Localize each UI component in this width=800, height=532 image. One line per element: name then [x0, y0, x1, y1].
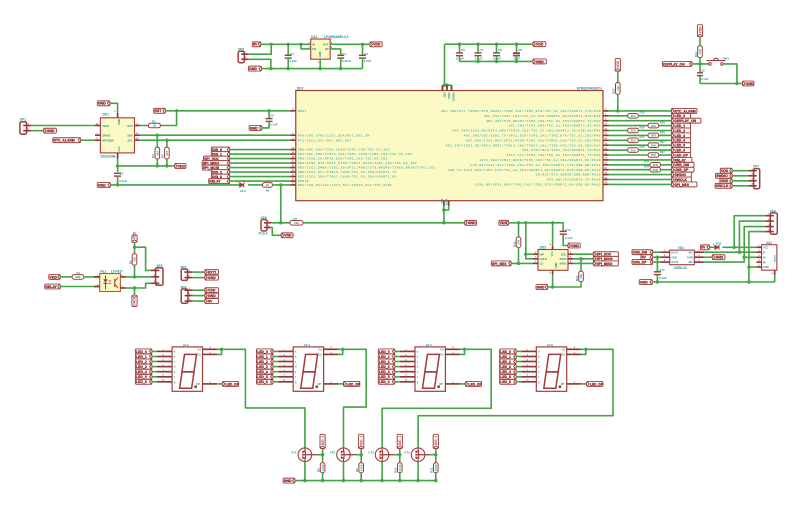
svg-text:GND: GND: [640, 280, 648, 284]
node: [287, 43, 290, 46]
svg-text:GND: GND: [763, 265, 769, 269]
svg-text:PB6/I2C1_SCL/TIM16_CH1N/TSC_G5: PB6/I2C1_SCL/TIM16_CH1N/TSC_G5_IO3/USART…: [298, 170, 397, 174]
svg-text:LED_0: LED_0: [379, 350, 390, 354]
svg-text:DIG_2: DIG_2: [398, 435, 402, 445]
wire 5V rail: [261, 43, 311, 45]
svg-text:VCC: VCC: [117, 146, 121, 152]
svg-text:GND: GND: [537, 285, 545, 289]
node: [361, 43, 364, 46]
wire: [249, 44, 271, 54]
svg-text:SWCLK: SWCLK: [716, 184, 729, 188]
svg-text:R9: R9: [355, 468, 359, 472]
resistor R1: [72, 271, 84, 279]
wire: [723, 64, 737, 84]
wire collector: [126, 276, 151, 278]
resistor R19: [648, 121, 665, 128]
svg-text:D-: D-: [763, 250, 766, 254]
svg-text:LED_6: LED_6: [675, 148, 686, 152]
svg-text:VT1: VT1: [291, 451, 297, 455]
wire ca1: [222, 349, 305, 447]
svg-text:0.1uF: 0.1uF: [565, 236, 573, 240]
resistor R13: [548, 259, 584, 287]
wire vdd rail: [445, 43, 533, 45]
wire xp8-3: [744, 227, 765, 258]
pin INT/SQW: [95, 138, 100, 140]
label flag LED_5: [671, 143, 690, 148]
node: [133, 275, 136, 278]
svg-text:PB1/ADC_IN9/TIM14_CH1/TIM1_CH3: PB1/ADC_IN9/TIM14_CH1/TIM1_CH3N/TIM3_CH4…: [298, 152, 413, 156]
wire: [609, 115, 628, 117]
label flag LED_3: [671, 133, 690, 138]
wire: [60, 286, 99, 288]
pin VBAT: [95, 122, 100, 125]
node: [279, 221, 446, 224]
svg-text:LED_5: LED_5: [379, 375, 390, 379]
svg-text:VCC: VCC: [763, 245, 769, 249]
wire: [516, 356, 521, 358]
node: [133, 246, 136, 249]
svg-text:C2: C2: [270, 114, 274, 118]
svg-text:LED_5: LED_5: [675, 144, 686, 148]
svg-text:LED_DP: LED_DP: [468, 382, 482, 386]
label flag LED_DP: [222, 381, 239, 386]
svg-text:HL4: HL4: [304, 343, 310, 347]
svg-text:HL5: HL5: [426, 343, 432, 347]
wire: [653, 256, 661, 258]
svg-text:RST: RST: [154, 109, 162, 113]
resistor R25: [612, 83, 620, 95]
svg-text:ADC_IN5/CEC/I2S1_CK/SPI1_SCK/T: ADC_IN5/CEC/I2S1_CK/SPI1_SCK/TIM2_CH1/TI…: [464, 134, 601, 138]
ground flag GND: [283, 478, 295, 483]
wire: [732, 180, 749, 182]
svg-text:GND: GND: [284, 479, 292, 483]
svg-text:CA: CA: [561, 353, 565, 357]
svg-text:VDD: VDD: [698, 26, 702, 34]
svg-text:I2C1_SDA/TIM17_BKIN/TIM1_CH3/T: I2C1_SDA/TIM17_BKIN/TIM1_CH3/TSC_G4_IO2/…: [479, 158, 601, 162]
label flag LED_4: [378, 369, 395, 374]
label flag DIG_3: [211, 174, 229, 179]
svg-text:VDD: VDD: [500, 221, 508, 225]
label flag LED_2: [500, 359, 516, 364]
wire: [659, 134, 672, 136]
ground flag GND: [44, 128, 57, 133]
wire: [134, 242, 136, 247]
resistor R4: [151, 135, 160, 166]
wire wp/hold: [526, 223, 533, 259]
wire gnd rail: [261, 68, 362, 70]
svg-text:32KHZ: 32KHZ: [102, 133, 111, 137]
svg-text:f: f: [295, 375, 296, 379]
wire: [152, 350, 157, 352]
connector XP7: [749, 165, 760, 189]
label flag DIG_3 vertical: [433, 434, 438, 448]
resistor R15: [628, 111, 645, 118]
wire dplus: [744, 256, 756, 258]
svg-text:DISPLAY_ON: DISPLAY_ON: [675, 119, 697, 123]
label flag EXT: [205, 270, 219, 275]
svg-text:VDDIO2: VDDIO2: [452, 92, 455, 102]
wire: [230, 162, 291, 164]
node: [380, 479, 401, 482]
svg-text:10k: 10k: [133, 257, 137, 262]
wire: [516, 350, 521, 352]
ground flag GND: [248, 66, 261, 71]
pin: [114, 111, 117, 118]
wire: [395, 366, 400, 368]
capacitor C1: [114, 171, 127, 185]
svg-text:LED_3: LED_3: [136, 365, 147, 369]
svg-text:USB_DM: USB_DM: [675, 163, 690, 167]
wire: [152, 376, 157, 378]
svg-text:LED_4: LED_4: [379, 370, 390, 374]
svg-text:10k: 10k: [698, 49, 702, 54]
svg-text:5V: 5V: [253, 43, 258, 47]
svg-text:LED_2: LED_2: [379, 360, 390, 364]
svg-text:DIG_0: DIG_0: [321, 435, 325, 445]
svg-text:PF1/I2C1_SCL/RCC_OSC_OUT: PF1/I2C1_SCL/RCC_OSC_OUT: [298, 138, 352, 142]
svg-text:BP: BP: [325, 47, 329, 51]
wire: [160, 111, 176, 126]
svg-text:DD1: DD1: [103, 113, 110, 117]
svg-text:SYS_SWCLK/USART2_TX/PA14: SYS_SWCLK/USART2_TX/PA14: [547, 178, 601, 182]
wire: [659, 125, 672, 127]
svg-text:C3: C3: [290, 52, 294, 56]
node 5V junction: [270, 43, 273, 46]
label flag LED_5: [257, 374, 274, 379]
wire: [273, 361, 278, 363]
wire: [305, 462, 323, 481]
wire: [152, 381, 157, 383]
7-segment display HL6: [521, 343, 581, 392]
svg-text:SWDIO: SWDIO: [675, 173, 687, 177]
wire DA1 gnd: [319, 59, 321, 68]
label flag RELAY: [45, 284, 60, 289]
svg-text:GND: GND: [98, 102, 106, 106]
ground flag GND: [249, 125, 262, 130]
node: [442, 208, 445, 211]
wire: [609, 169, 651, 171]
7-segment display HL4: [278, 343, 338, 392]
svg-text:LED_1: LED_1: [379, 355, 390, 359]
power flag VDD: [49, 274, 60, 279]
wire: [273, 350, 278, 352]
svg-text:LED_2: LED_2: [675, 129, 686, 133]
svg-text:LED_0: LED_0: [257, 350, 268, 354]
svg-text:R5: R5: [161, 154, 165, 158]
pin SCL: [135, 138, 140, 140]
ground flag GND: [205, 293, 219, 298]
label flag LED_6: [135, 379, 152, 384]
node: [220, 348, 223, 351]
svg-text:CRS_SYNC/MCO/TIM1_CH1/USART1_C: CRS_SYNC/MCO/TIM1_CH1/USART1_CK/PA8: [522, 148, 601, 152]
label flag LED_3: [500, 364, 516, 369]
svg-text:GND: GND: [536, 60, 544, 64]
ground flag GND: [97, 182, 110, 187]
wire: [395, 376, 400, 378]
label flag LED_5: [135, 374, 152, 379]
svg-text:5V: 5V: [208, 299, 213, 303]
svg-text:RST: RST: [128, 124, 134, 128]
wire: [609, 174, 672, 176]
wire: [248, 184, 262, 186]
ground flag GND vertical: [132, 295, 137, 306]
svg-text:PF0/CRS_SYNC/I2C1_SDA/RCC_OSC_: PF0/CRS_SYNC/I2C1_SDA/RCC_OSC_IN: [298, 133, 370, 137]
node: [116, 183, 119, 186]
node: [476, 60, 518, 63]
svg-text:LED_4: LED_4: [500, 370, 511, 374]
svg-text:HL3: HL3: [240, 189, 246, 193]
wire ca4: [418, 349, 613, 447]
svg-text:5V: 5V: [642, 256, 647, 260]
wire: [273, 381, 278, 383]
label flag LED_DP: [587, 381, 604, 386]
svg-text:0.1uF: 0.1uF: [659, 276, 667, 280]
svg-text:SW1: SW1: [723, 56, 730, 60]
svg-text:GND: GND: [468, 221, 476, 225]
svg-text:CA: CA: [318, 347, 322, 351]
wire: [230, 158, 291, 160]
wire vcc: [552, 223, 554, 246]
label flag DIG_0: [211, 147, 229, 152]
node: [342, 479, 363, 482]
wire sck: [573, 253, 593, 255]
wire: [395, 371, 400, 373]
diode VD2: [713, 242, 722, 250]
label flag LED_0: [671, 113, 690, 118]
pin 32KHZ: [95, 133, 100, 135]
svg-text:R22: R22: [660, 150, 665, 154]
svg-text:CA: CA: [318, 353, 322, 357]
resistor R20: [648, 130, 665, 137]
label flag DIG_1 vertical: [359, 434, 364, 448]
svg-text:R14: R14: [694, 51, 698, 57]
wire usb gnd rail: [652, 281, 774, 283]
svg-text:GND: GND: [318, 51, 322, 57]
wire: [609, 110, 672, 112]
wire gate node: [356, 449, 362, 463]
wire: [661, 164, 672, 166]
wire: [516, 376, 521, 378]
svg-text:EN: EN: [312, 47, 316, 51]
svg-text:RTC_ALARM: RTC_ALARM: [54, 139, 75, 143]
wire dp: [581, 383, 587, 385]
node: [524, 253, 527, 256]
svg-text:200: 200: [651, 153, 656, 157]
svg-text:R20: R20: [660, 130, 665, 134]
optocoupler HL1 LTV-817: [97, 269, 123, 291]
label flag LED_4: [500, 369, 516, 374]
svg-text:SPI_NSS: SPI_NSS: [492, 262, 507, 266]
wire: [395, 356, 400, 358]
svg-text:ADC_IN1/TIM2_CH2/TSC_G1_IO2/US: ADC_IN1/TIM2_CH2/TSC_G1_IO2/USART2_DE/US…: [484, 114, 601, 118]
power flag VDD: [499, 220, 509, 225]
label flag LED_3: [378, 364, 395, 369]
node: [733, 246, 736, 249]
capacitor C11: [654, 257, 667, 282]
label flag SWCLK: [671, 177, 691, 182]
label flag SWDIO: [716, 173, 733, 178]
resistor R12: [512, 223, 521, 264]
label flag SPI_MISO: [202, 161, 230, 166]
wire boot to xp6: [280, 185, 282, 223]
label flag LED_1: [671, 123, 690, 128]
resistor R5: [161, 140, 170, 166]
transistor VT4: [404, 448, 430, 462]
node: [517, 221, 555, 224]
wire to mcu vdd: [443, 44, 452, 90]
wire xp8-1: [734, 216, 765, 248]
wire vcc: [117, 159, 119, 172]
wire vbus: [723, 246, 757, 248]
svg-text:1k: 1k: [153, 124, 157, 128]
svg-text:LED_DP: LED_DP: [590, 382, 604, 386]
svg-text:VDDA: VDDA: [447, 92, 450, 99]
svg-text:LTV-817: LTV-817: [111, 269, 123, 273]
connector XP2: [151, 264, 163, 286]
ground flag GND: [743, 81, 754, 86]
capacitor C10: [560, 228, 573, 245]
capacitor C6: [456, 44, 465, 61]
resistor R18: [628, 145, 645, 152]
svg-text:0.1uF: 0.1uF: [270, 122, 278, 126]
node: [133, 286, 136, 289]
svg-text:LED_DP: LED_DP: [226, 382, 240, 386]
label flag VDD: [720, 168, 732, 173]
wire: [271, 228, 281, 236]
svg-text:680: 680: [75, 275, 80, 279]
svg-text:22R: 22R: [652, 168, 658, 172]
svg-text:SPI_MISO: SPI_MISO: [596, 262, 613, 266]
label flag LED_0: [378, 349, 395, 354]
svg-text:LED_1: LED_1: [257, 355, 268, 359]
wire: [84, 276, 100, 278]
svg-text:IN: IN: [312, 43, 315, 47]
svg-text:R8: R8: [316, 468, 320, 472]
wire vd4 gnd: [704, 256, 713, 258]
spi flash DD3: [533, 244, 573, 275]
svg-text:USB_DP: USB_DP: [633, 260, 648, 264]
svg-text:R4: R4: [151, 154, 155, 158]
svg-text:LED_3: LED_3: [257, 365, 268, 369]
connector XP6: [259, 216, 272, 236]
svg-text:VDD: VDD: [721, 169, 729, 173]
wire ca join: [581, 349, 586, 354]
wire: [31, 130, 44, 132]
wire: [609, 159, 672, 161]
label flag DISPLAY_ON: [662, 61, 692, 66]
svg-text:VT2: VT2: [330, 451, 336, 455]
svg-text:200: 200: [630, 148, 635, 152]
svg-text:R16: R16: [640, 125, 645, 129]
label flag LED_6: [378, 379, 395, 384]
svg-text:OUT1: OUT1: [671, 251, 678, 255]
wire: [152, 361, 157, 363]
svg-text:R2: R2: [128, 260, 132, 264]
svg-text:HL6: HL6: [547, 343, 553, 347]
label flag GND: [720, 178, 732, 183]
node: [584, 348, 587, 351]
svg-text:VDD: VDD: [616, 60, 620, 68]
capacitor C7: [475, 44, 484, 61]
node: [360, 453, 363, 456]
node: [735, 82, 738, 85]
capacitor C2: [262, 111, 278, 128]
resistor R14: [694, 46, 702, 58]
wire: [609, 179, 672, 181]
wire: [273, 371, 278, 373]
svg-text:R21: R21: [660, 140, 665, 144]
wire miso: [573, 262, 593, 264]
regulator DA1 LP2985AIM5-3.3: [308, 35, 348, 64]
svg-text:C7: C7: [480, 48, 484, 52]
wire: [609, 130, 628, 132]
svg-text:D+: D+: [763, 255, 767, 259]
svg-text:10k: 10k: [517, 239, 521, 244]
svg-text:C6: C6: [461, 48, 465, 52]
wire: [152, 366, 157, 368]
wire: [653, 251, 661, 253]
svg-text:200: 200: [630, 139, 635, 143]
wire: [516, 366, 521, 368]
wire dp: [217, 383, 223, 385]
transistor VT1: [291, 448, 317, 462]
ground flag GND: [568, 243, 580, 248]
ground flag GND: [536, 285, 548, 290]
svg-text:R1: R1: [77, 271, 81, 275]
resistor R8: [316, 463, 325, 473]
svg-text:XS1: XS1: [766, 241, 772, 245]
svg-text:GND: GND: [250, 126, 258, 130]
label flag SPI_SCK: [204, 156, 230, 161]
svg-text:100k: 100k: [434, 464, 438, 471]
label flag SPI_NSS: [671, 182, 697, 187]
connector XP4: [180, 286, 192, 304]
7-segment display HL5: [400, 343, 460, 392]
svg-text:GND: GND: [746, 82, 754, 86]
svg-text:WP: WP: [540, 252, 545, 256]
resistor R9: [355, 463, 364, 473]
resistor R16: [628, 125, 645, 132]
svg-text:RELAY: RELAY: [675, 158, 687, 162]
wire dp: [338, 383, 344, 385]
svg-text:ADC_IN7/I2S1_SD/SPI1_MOSI/TIM1: ADC_IN7/I2S1_SD/SPI1_MOSI/TIM14_CH1/TIM1…: [446, 143, 601, 147]
svg-text:10k: 10k: [294, 221, 299, 225]
svg-text:PB7/I2C1_SDA/TIM17_CH1N/TSC_G5: PB7/I2C1_SDA/TIM17_CH1N/TSC_G5_IO4/USART…: [298, 175, 397, 179]
svg-text:USB_DP: USB_DP: [675, 168, 690, 172]
svg-text:DISPLAY_ON: DISPLAY_ON: [663, 62, 685, 66]
wire: [135, 283, 151, 288]
transistor VT2: [330, 448, 356, 462]
wire: [110, 103, 118, 113]
svg-text:C5: C5: [364, 52, 368, 56]
svg-text:I2C1_SCL/TIM1_CH2/TSC_G4_IO1/U: I2C1_SCL/TIM1_CH2/TSC_G4_IO1/USART1_TX/P…: [506, 153, 601, 157]
wire ca join: [217, 349, 222, 354]
wire: [609, 144, 649, 146]
svg-text:LED_4: LED_4: [257, 370, 268, 374]
svg-text:SDA: SDA: [127, 133, 133, 137]
svg-text:R18: R18: [640, 145, 645, 149]
resistor R23: [644, 160, 660, 167]
power flag VDD vertical: [697, 25, 702, 37]
svg-text:R10: R10: [394, 467, 398, 473]
svg-text:200: 200: [651, 143, 656, 147]
svg-text:HOLD: HOLD: [540, 257, 548, 261]
wire: [609, 183, 672, 185]
wire: [230, 149, 291, 151]
svg-text:VDD: VDD: [373, 43, 381, 47]
svg-text:DA1: DA1: [311, 35, 318, 39]
label flag LED_5: [378, 374, 395, 379]
